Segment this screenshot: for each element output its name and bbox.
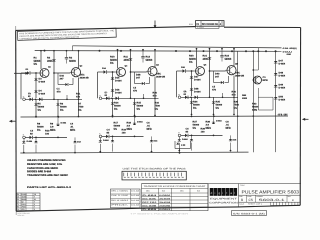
svg-text:DIODES ARE D-664: DIODES ARE D-664 (27, 170, 51, 173)
svg-text:9-5-68: 9-5-68 (131, 195, 139, 197)
svg-text:R1: R1 (17, 199, 19, 201)
svg-text:R20: R20 (189, 55, 194, 58)
wire (100, 138, 102, 141)
junction (257, 50, 259, 52)
svg-text:2110: 2110 (22, 204, 26, 206)
svg-text:REV CHANGE NO.: REV CHANGE NO. (202, 23, 219, 25)
diode D11 (35, 137, 37, 141)
wire (31, 72, 39, 74)
fold mark arrow left lower (12, 120, 16, 122)
wire (78, 51, 80, 69)
svg-text:-O B -15V: -O B -15V (278, 114, 288, 116)
svg-text:16: 16 (34, 194, 36, 196)
wire (130, 50, 132, 99)
svg-text:2N4258: 2N4258 (159, 201, 170, 203)
svg-text:C4: C4 (17, 209, 19, 211)
svg-text:CHK. R. VOSE: CHK. R. VOSE (111, 195, 128, 197)
svg-text:R10: R10 (45, 130, 49, 133)
diode D1 (52, 60, 55, 62)
svg-text:B: B (292, 199, 294, 202)
svg-text:Q2: Q2 (80, 65, 83, 67)
ground rail wire (20, 151, 248, 154)
svg-text:-O CA,A,J: -O CA,A,J (282, 51, 292, 53)
diode D7 D-664 (56, 104, 59, 106)
title block grid (239, 194, 301, 196)
svg-text:IN3653: IN3653 (159, 208, 170, 210)
junction (179, 152, 181, 154)
junction (216, 50, 218, 52)
svg-text:R30: R30 (232, 91, 236, 94)
junction (252, 115, 254, 117)
wire (214, 82, 221, 84)
drawing border frame right (299, 28, 301, 206)
diode D22 (99, 140, 102, 142)
svg-text:i: i (215, 192, 216, 195)
svg-text:R8: R8 (37, 123, 40, 126)
wire (154, 77, 156, 99)
svg-text:D-664: D-664 (182, 138, 188, 140)
svg-text:R20: R20 (153, 92, 157, 95)
svg-text:D-664: D-664 (279, 87, 286, 90)
wire (135, 83, 142, 85)
wire (179, 137, 181, 140)
svg-text:Q3: Q3 (125, 65, 128, 67)
diode D14 (104, 70, 107, 73)
fold mark arrow left (input) (14, 72, 26, 74)
svg-text:EQUIPMENT: EQUIPMENT (210, 197, 237, 200)
wire (134, 98, 136, 115)
svg-text:247: 247 (215, 76, 219, 79)
svg-text:IN3606: IN3606 (159, 194, 170, 196)
wire (20, 73, 22, 99)
transistor Q5 (196, 67, 205, 76)
svg-text:d: d (211, 192, 213, 195)
wire (196, 49, 198, 67)
logo square d (210, 188, 214, 196)
svg-text:D3: D3 (39, 78, 42, 81)
wire (26, 136, 30, 138)
svg-text:S/N S603-0-1 (M): S/N S603-0-1 (M) (233, 212, 265, 215)
svg-text:-O GA +10V(A): -O GA +10V(A) (282, 47, 296, 49)
wire (233, 49, 235, 67)
svg-text:R12: R12 (146, 56, 151, 59)
svg-text:R15: R15 (137, 102, 141, 105)
svg-text:R10: R10 (110, 56, 115, 59)
svg-text:NPN: NPN (263, 79, 268, 82)
fold mark arrow top (154, 21, 156, 27)
wire (225, 82, 229, 84)
svg-text:D-664: D-664 (194, 79, 201, 82)
svg-text:5%: 5% (38, 109, 41, 112)
svg-text:D-664: D-664 (61, 122, 67, 124)
svg-text:R17: R17 (114, 122, 118, 125)
svg-text:PROD.: PROD. (111, 204, 128, 206)
wire (174, 141, 176, 149)
svg-text:R1: R1 (34, 57, 37, 60)
svg-text:3.9: 3.9 (50, 126, 53, 129)
svg-text:CAPACITORS ARE MMFD: CAPACITORS ARE MMFD (27, 167, 58, 170)
svg-text:7500: 7500 (78, 106, 83, 109)
svg-text:R29: R29 (201, 128, 205, 131)
wire (35, 73, 37, 98)
svg-text:470: 470 (212, 89, 216, 92)
svg-text:7500: 7500 (155, 105, 160, 108)
svg-text:5%: 5% (34, 63, 37, 66)
wire (186, 70, 194, 72)
svg-text:D-664: D-664 (137, 121, 143, 123)
junction (252, 69, 254, 71)
wire (112, 98, 114, 115)
svg-text:D36: D36 (233, 139, 237, 141)
svg-text:t: t (226, 192, 227, 195)
wire (257, 48, 259, 70)
wire (78, 99, 80, 116)
svg-text:R11: R11 (76, 93, 80, 96)
svg-text:470: 470 (232, 94, 236, 97)
signature table (111, 189, 141, 208)
svg-text:CORPORATION: CORPORATION (209, 201, 237, 204)
capacitor C5 (142, 50, 144, 57)
svg-text:D-664: D-664 (279, 63, 286, 66)
svg-text:56000: 56000 (146, 59, 153, 62)
svg-text:D40: D40 (215, 73, 219, 76)
wire (69, 84, 73, 86)
svg-text:C1: C1 (57, 88, 60, 91)
svg-text:D-664: D-664 (115, 92, 122, 95)
svg-text:D50: D50 (279, 96, 284, 99)
svg-text:NUMBER: NUMBER (256, 196, 263, 198)
diode D12 (74, 137, 76, 141)
logo square i (214, 188, 218, 196)
digital logo block (207, 184, 209, 208)
wire (57, 73, 59, 85)
svg-text:R25: R25 (216, 101, 220, 104)
wire (117, 50, 119, 68)
svg-text:A: A (220, 23, 221, 25)
node D input terminal (23, 98, 26, 101)
+10V bus wire (35, 50, 276, 53)
diode D9 (30, 136, 33, 139)
svg-text:DEC: DEC (146, 190, 150, 192)
diode D18 D-664 (111, 103, 114, 105)
diode D26 (183, 69, 186, 72)
svg-text:C2: C2 (30, 130, 33, 133)
svg-text:D24: D24 (154, 140, 158, 142)
svg-text:MEG: MEG (206, 127, 211, 130)
capacitor C7 (221, 49, 223, 56)
svg-text:3639-2B: 3639-2B (80, 77, 89, 80)
diode D38 (195, 96, 198, 99)
svg-text:3: 3 (34, 204, 35, 206)
transistor and diode conversion chart (142, 184, 209, 211)
junction (112, 115, 114, 117)
junction (265, 50, 267, 52)
svg-text:a: a (230, 192, 232, 195)
logo square l (234, 188, 238, 196)
wire (179, 149, 181, 154)
junction (35, 116, 37, 118)
wire (26, 98, 83, 100)
svg-text:R21: R21 (203, 55, 208, 58)
diode D21 (106, 135, 109, 138)
svg-text:9-5-68: 9-5-68 (131, 190, 139, 192)
svg-text:SCALE: SCALE (239, 203, 244, 205)
diode D27 (142, 82, 144, 85)
svg-text:R24: R24 (193, 101, 197, 104)
diode D32 D-664 (212, 122, 215, 124)
diode D19 D-664 (133, 103, 136, 105)
wire (78, 78, 80, 100)
svg-text:D-664: D-664 (103, 139, 109, 141)
wire (23, 145, 25, 153)
svg-text:470: 470 (133, 90, 137, 93)
svg-text:DEC 3639B: DEC 3639B (142, 205, 156, 207)
svg-text:MFD: MFD (226, 127, 231, 130)
svg-text:R19: R19 (122, 129, 126, 132)
diode D49 D-664 (274, 85, 278, 87)
diode D8 D-664 (56, 124, 59, 126)
svg-text:82: 82 (28, 95, 30, 97)
svg-text:5%: 5% (60, 109, 63, 112)
svg-text:3.9: 3.9 (206, 124, 209, 127)
junction (44, 50, 46, 52)
svg-text:56000: 56000 (114, 125, 121, 128)
svg-text:5%: 5% (110, 62, 113, 65)
svg-text:M: M (178, 94, 180, 96)
wire (33, 136, 67, 138)
svg-text:7: 7 (34, 206, 35, 208)
svg-text:l: l (234, 192, 235, 195)
svg-text:USE THE ETCH BOARD OF THE PA03: USE THE ETCH BOARD OF THE PA03 (123, 167, 186, 170)
svg-text:2N3639: 2N3639 (159, 198, 170, 200)
svg-text:C5: C5 (212, 86, 215, 89)
svg-text:56000: 56000 (216, 104, 223, 107)
wire (72, 78, 74, 85)
svg-text:3: 3 (34, 209, 35, 211)
node K input terminal (99, 135, 102, 138)
svg-text:D49: D49 (279, 84, 284, 87)
svg-text:3.9: 3.9 (127, 125, 130, 128)
svg-text:2000: 2000 (242, 97, 247, 99)
logo square i (222, 188, 226, 196)
wire base of second stage (54, 72, 70, 74)
svg-text:5%: 5% (193, 127, 196, 130)
svg-text:R9: R9 (50, 123, 53, 126)
svg-text:DRA 110: DRA 110 (18, 215, 25, 217)
page left edge (15, 26, 18, 215)
wire (146, 83, 150, 85)
svg-text:D-664: D-664 (216, 120, 222, 122)
diode D14 (39, 98, 42, 101)
transistor Q3 (117, 68, 126, 77)
logo square t (226, 188, 230, 196)
wire (40, 51, 42, 69)
svg-text:RESISTORS ARE 1/4W; 10%: RESISTORS ARE 1/4W; 10% (27, 163, 62, 166)
diode D29 (185, 96, 188, 99)
junction (99, 50, 101, 52)
svg-text:CS: CS (249, 199, 254, 203)
wire (237, 51, 239, 152)
node P input terminal (178, 134, 181, 137)
wire (272, 97, 274, 110)
svg-text:DEC 2110: DEC 2110 (142, 201, 156, 203)
svg-text:D28: D28 (136, 74, 140, 77)
svg-text:UNLESS OTHERWISE INDICATED:: UNLESS OTHERWISE INDICATED: (27, 159, 66, 162)
junction (191, 116, 193, 118)
wire (72, 46, 74, 51)
wire (253, 69, 258, 71)
wire (191, 71, 193, 96)
svg-text:82: 82 (22, 201, 24, 203)
node H input terminal (99, 97, 102, 100)
svg-text:E: E (23, 134, 24, 136)
wire (177, 70, 183, 72)
junction (189, 50, 191, 52)
junction (58, 116, 60, 118)
svg-text:56000: 56000 (22, 199, 27, 201)
svg-text:Q1: Q1 (17, 196, 19, 198)
wire (190, 141, 192, 149)
logo square a (230, 188, 234, 196)
svg-text:R22: R22 (225, 55, 230, 58)
svg-text:D14: D14 (102, 68, 106, 70)
svg-text:D-664: D-664 (142, 194, 156, 196)
wire (228, 76, 230, 83)
wire (181, 134, 185, 136)
svg-text:3639-2B: 3639-2B (156, 76, 165, 79)
diode D50 D-664 (274, 97, 278, 99)
svg-text:56000: 56000 (225, 58, 232, 61)
svg-text:5%: 5% (216, 107, 219, 110)
svg-text:82: 82 (184, 93, 186, 95)
svg-text:56000: 56000 (69, 60, 76, 63)
svg-text:SHEET 1 OF 1: SHEET 1 OF 1 (248, 203, 262, 205)
svg-text:D27: D27 (194, 76, 198, 79)
svg-text:R6: R6 (60, 103, 63, 106)
svg-text:H: H (99, 95, 100, 97)
diode D10 (22, 141, 25, 143)
svg-text:PARTS LIST A/PL-S603-0-0: PARTS LIST A/PL-S603-0-0 (27, 186, 71, 189)
wire (97, 72, 99, 98)
junction (275, 50, 277, 52)
svg-text:K: K (99, 133, 100, 135)
svg-text:C6: C6 (186, 128, 189, 131)
wire base of second stage (131, 71, 147, 73)
svg-text:R28: R28 (206, 121, 210, 124)
svg-text:1.5K: 1.5K (181, 144, 185, 146)
svg-text:MFD: MFD (147, 128, 152, 131)
svg-text:3000: 3000 (47, 60, 52, 63)
svg-text:C3: C3 (133, 87, 136, 90)
wire (258, 109, 273, 111)
svg-text:C9: C9 (184, 91, 187, 93)
drawing border frame left (15, 30, 18, 211)
svg-text:D-664: D-664 (22, 194, 27, 196)
svg-text:R4: R4 (17, 206, 19, 208)
svg-text:REV.: REV. (288, 196, 291, 198)
svg-text:470: 470 (22, 209, 25, 211)
svg-text:T P S603-0-1 PULSE AMPLIFIER: T P S603-0-1 PULSE AMPLIFIER (130, 213, 188, 215)
svg-text:3000: 3000 (203, 58, 208, 61)
wire (149, 77, 151, 84)
wire (102, 97, 159, 99)
svg-text:56000: 56000 (114, 105, 121, 108)
svg-text:EIA: EIA (162, 190, 165, 192)
svg-text:3000: 3000 (124, 59, 129, 62)
svg-text:DEC 3639C: DEC 3639C (142, 198, 156, 200)
junction (231, 50, 233, 52)
svg-text:D: D (23, 96, 24, 98)
output diode column wire (275, 51, 277, 152)
svg-text:B: B (241, 199, 243, 203)
wire (276, 50, 282, 52)
svg-text:D-668: D-668 (142, 208, 156, 210)
transistor Q6 (227, 66, 236, 75)
svg-text:S603-0-1: S603-0-1 (259, 199, 285, 203)
junction (178, 150, 180, 152)
svg-text:56000: 56000 (193, 104, 200, 107)
svg-text:470: 470 (57, 91, 61, 94)
svg-text:82: 82 (186, 131, 189, 134)
svg-text:D26: D26 (181, 67, 185, 69)
svg-text:C4: C4 (70, 123, 73, 126)
wire base of second stage (210, 70, 226, 72)
svg-text:56000: 56000 (38, 106, 45, 109)
wire (35, 99, 37, 116)
svg-text:7500: 7500 (22, 206, 26, 208)
wire (258, 96, 273, 98)
junction (134, 116, 136, 118)
svg-text:.01: .01 (70, 126, 73, 129)
junction (237, 115, 239, 117)
svg-text:ECO: ECO (189, 23, 193, 25)
diode D34 (178, 139, 181, 141)
svg-text:DRN. J. KONKEL: DRN. J. KONKEL (111, 190, 128, 192)
wire (213, 97, 215, 114)
svg-text:100: 100 (201, 131, 205, 134)
diode D26 (116, 97, 119, 100)
svg-text:100: 100 (45, 133, 49, 136)
svg-text:R63: R63 (252, 103, 256, 106)
diode D2 (27, 71, 30, 74)
svg-text:D2: D2 (26, 69, 29, 71)
junction (112, 116, 114, 118)
svg-text:R2: R2 (47, 57, 50, 60)
diode D148 (176, 143, 179, 145)
wire (110, 135, 144, 137)
svg-text:5%: 5% (114, 128, 117, 131)
svg-text:D15: D15 (115, 77, 119, 80)
wire (257, 88, 259, 110)
wire (98, 71, 104, 73)
capacitor C3 (66, 51, 68, 58)
svg-text:247: 247 (136, 77, 140, 80)
diode D17 (106, 97, 109, 100)
junction (203, 50, 205, 52)
+10V rail wire (73, 46, 282, 48)
transistor Q2 (71, 68, 80, 77)
svg-text:2N3639B: 2N3639B (159, 205, 170, 207)
svg-text:TRANSISTOR & DIODE CONVERSION: TRANSISTOR & DIODE CONVERSION CHART (144, 185, 206, 187)
wire (233, 97, 235, 114)
svg-text:CODE: CODE (247, 196, 251, 198)
svg-text:5%: 5% (37, 129, 40, 132)
svg-text:DEC: DEC (80, 74, 85, 77)
diode D36 (230, 135, 232, 139)
diode D24 (151, 136, 153, 140)
wire (57, 99, 59, 116)
svg-text:D-664: D-664 (39, 93, 46, 96)
